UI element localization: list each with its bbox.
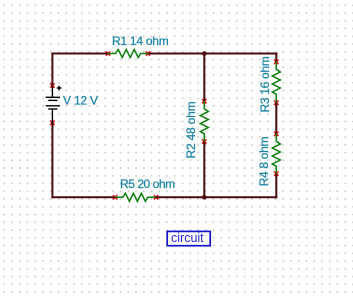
svg-text:R1 14 ohm: R1 14 ohm: [112, 34, 169, 48]
resistor R3 body: [272, 62, 280, 103]
svg-text:circuit: circuit: [171, 231, 204, 245]
pin marker R3 bottom pin: [274, 101, 278, 105]
pin marker battery positive pin: [50, 83, 54, 87]
svg-text:R2 48 ohm: R2 48 ohm: [184, 101, 198, 158]
pin marker R2 bottom pin: [202, 139, 206, 143]
voltage source V battery top lead: [51, 87, 53, 97]
pin marker R2 top pin: [202, 99, 206, 103]
pin marker battery negative pin: [50, 121, 54, 125]
wire right branch middle segment: [275, 103, 277, 134]
wire right branch top stub: [275, 53, 277, 62]
pin marker R1 right pin: [146, 51, 150, 55]
pin marker R1 left pin: [106, 51, 110, 55]
wire left lower segment: [51, 121, 53, 199]
pin marker R4 top pin: [274, 132, 278, 136]
junction node at top of middle branch: [202, 51, 207, 56]
svg-text:V 12 V: V 12 V: [63, 93, 98, 107]
voltage source V plus sign: [57, 86, 62, 91]
wire top left segment: [51, 53, 108, 55]
pin marker R3 top pin: [274, 60, 278, 64]
wire right branch bottom segment: [275, 174, 277, 199]
pin marker R4 bottom pin: [274, 172, 278, 176]
wire top right segment: [148, 53, 277, 55]
circuit title box: [167, 231, 210, 245]
voltage source V battery plate short bottom: [48, 108, 57, 110]
svg-text:R4 8 ohm: R4 8 ohm: [257, 136, 271, 186]
resistor R2 body: [200, 101, 208, 141]
junction node at bottom of middle branch: [202, 195, 207, 200]
voltage source V battery bottom lead: [51, 109, 53, 123]
resistor R1 body: [108, 50, 148, 58]
pin marker R5 left pin: [113, 195, 117, 199]
wire bottom right segment: [156, 196, 277, 198]
wire left upper segment: [51, 53, 53, 88]
voltage source V battery plate long lower: [46, 105, 60, 107]
pin marker R5 right pin: [154, 195, 158, 199]
wire bottom left segment: [51, 196, 115, 198]
wire middle branch upper segment: [203, 54, 205, 102]
voltage source V battery plate short upper: [48, 99, 57, 101]
resistor R5 body: [115, 193, 156, 201]
svg-text:R3 16 ohm: R3 16 ohm: [258, 56, 272, 112]
resistor R4 body: [272, 134, 280, 174]
wire middle branch lower segment: [203, 142, 205, 198]
svg-text:R5 20 ohm: R5 20 ohm: [120, 177, 175, 191]
voltage source V battery plate long top: [46, 96, 60, 98]
